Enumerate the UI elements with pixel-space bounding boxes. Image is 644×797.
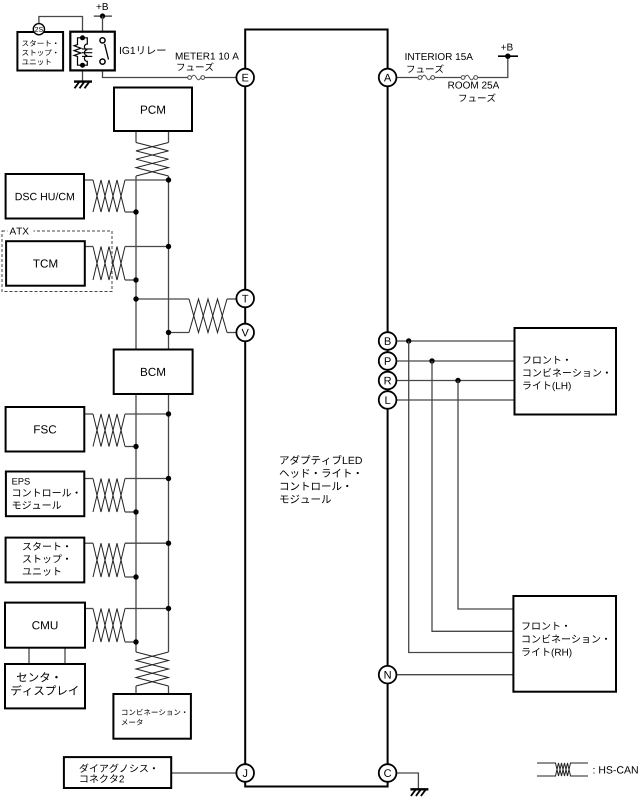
node N: [379, 666, 397, 684]
wire TCM CAN-H: [85, 246, 93, 248]
twisted pair T-V: [189, 299, 227, 333]
box diagnosis connector 2: [64, 757, 171, 788]
wire 2S unit to relay coil: [39, 17, 83, 38]
box FSC: [6, 407, 85, 452]
wire CMU to center display: [28, 648, 30, 664]
box front combination light LH: [515, 328, 617, 415]
relay coil terminal bottom: [80, 63, 85, 68]
box TCM: [6, 241, 85, 286]
twisted pair DSC HU/CM: [93, 180, 125, 212]
node J: [236, 764, 254, 782]
relay IG1: [70, 32, 115, 71]
node E: [236, 69, 254, 87]
junction CMU CAN-H: [166, 606, 171, 611]
wire node L to front combination light LH: [397, 399, 515, 401]
label IG1 relay: [120, 46, 165, 54]
wire node A to fuses and +B right: [397, 77, 418, 79]
wire DSC HU/CM CAN-H: [84, 179, 93, 181]
wire PCM pins: [135, 131, 137, 143]
wire start-stop unit CAN-H: [84, 542, 93, 544]
junction P branch: [429, 358, 434, 363]
box CMU: [5, 603, 85, 648]
junction start-stop unit CAN-L: [133, 574, 138, 579]
wire FSC CAN-H: [84, 413, 93, 415]
wire fuse METER1 to node E: [205, 77, 236, 79]
node A: [379, 69, 397, 87]
wire node B to front combination light LH: [397, 340, 515, 342]
legend twisted pair HS-CAN: [537, 762, 556, 764]
junction B branch: [406, 338, 411, 343]
junction +B right: [505, 54, 510, 59]
fuse INTERIOR 15A: [418, 75, 435, 80]
junction T branch: [133, 296, 138, 301]
label ATX: [10, 228, 29, 235]
twisted pair start-stop unit: [93, 543, 125, 577]
power +B right label: [501, 44, 512, 51]
node C: [379, 764, 397, 782]
node P: [379, 352, 397, 370]
fuse METER1 10A: [188, 75, 205, 80]
wire CMU CAN-H: [85, 608, 93, 610]
relay switch contact top: [100, 38, 105, 43]
relay coil winding branch: [83, 38, 88, 65]
box PCM: [114, 88, 192, 132]
twisted pair TCM: [93, 247, 125, 281]
CAN bus line right lower: [168, 394, 170, 652]
box ATX group (dashed): [2, 231, 112, 292]
CAN bus line left lower: [135, 394, 137, 652]
relay coil terminal top: [80, 35, 85, 40]
power +B left label: [96, 3, 107, 10]
wire CAN-L to node V: [169, 332, 190, 334]
power +B right terminal bar: [498, 55, 518, 57]
node T: [236, 290, 254, 308]
wire node N to light RH: [397, 674, 514, 676]
relay coil resistor branch: [74, 38, 82, 65]
box EPS control module: [6, 472, 84, 517]
junction EPS CAN-L: [133, 509, 138, 514]
junction FSC CAN-L: [133, 444, 138, 449]
node V: [236, 324, 254, 342]
junction TCM CAN-H: [166, 244, 171, 249]
node B: [379, 332, 397, 350]
wire B branch to light RH: [409, 341, 514, 653]
box center display: [5, 664, 85, 708]
wire P branch to light RH: [432, 361, 513, 631]
junction R branch: [455, 378, 460, 383]
wire relay switch to fuse METER1: [103, 64, 188, 78]
relay switch contact bottom: [100, 59, 105, 64]
wire CAN-H to node T: [136, 298, 189, 300]
box DSC HU/CM: [6, 174, 84, 219]
power +B left terminal bar: [94, 15, 112, 17]
node L: [379, 391, 397, 409]
connector circle 2S: [33, 24, 44, 35]
wire EPS CAN-H: [84, 478, 93, 480]
wire node P to front combination light LH: [397, 360, 515, 362]
junction V branch: [166, 330, 171, 335]
junction DSC HU/CM CAN-H: [166, 177, 171, 182]
wire node R to front combination light LH: [397, 380, 515, 382]
junction FSC CAN-H: [166, 411, 171, 416]
fuse ROOM 25A: [461, 75, 478, 80]
label METER1 10 A: [176, 53, 239, 60]
ground relay coil: [74, 82, 92, 89]
junction +B left: [100, 13, 105, 18]
wire node C to ground: [397, 773, 419, 789]
module U1 adaptive LED headlight control module: [245, 30, 387, 787]
label HS-CAN: [593, 766, 637, 773]
junction start-stop unit CAN-H: [166, 541, 171, 546]
junction EPS CAN-H: [166, 476, 171, 481]
twisted pair combination meter: [136, 652, 169, 686]
junction DSC HU/CM CAN-L: [133, 209, 138, 214]
junction CMU CAN-L: [133, 639, 138, 644]
wire combination meter pins: [135, 686, 137, 694]
box start-stop unit (mid): [6, 538, 85, 583]
wire diagnosis connector to node J: [171, 772, 236, 774]
wire +B to relay switch: [102, 16, 104, 38]
box start-stop unit (top): [17, 32, 63, 71]
CAN bus line left upper: [135, 176, 137, 350]
label adaptive LED headlight control module: [280, 455, 362, 465]
box front combination light RH: [513, 596, 616, 692]
junction TCM CAN-L: [133, 277, 138, 282]
label ROOM 25A: [448, 82, 499, 89]
box BCM: [114, 350, 193, 395]
twisted pair EPS: [93, 479, 125, 513]
twisted pair CMU: [93, 609, 125, 643]
wire relay coil to ground: [82, 65, 84, 81]
twisted pair PCM: [136, 143, 169, 177]
wire R branch to light RH: [458, 381, 513, 610]
ground at node C: [410, 789, 428, 796]
label INTERIOR 15A: [406, 53, 473, 60]
node R: [379, 372, 397, 390]
CAN bus line right upper: [168, 176, 170, 350]
relay switch blade: [105, 44, 109, 60]
twisted pair FSC: [93, 414, 125, 447]
box combination meter: [113, 694, 190, 739]
